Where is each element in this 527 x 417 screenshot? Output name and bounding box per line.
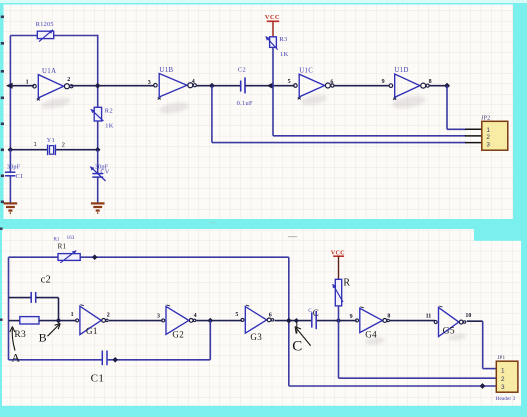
wire: net to JP2 pin 2 xyxy=(272,86,274,136)
svg-text:R3: R3 xyxy=(14,330,26,340)
svg-text:G1: G1 xyxy=(86,326,98,336)
resistor R1 (top, variable 205) xyxy=(36,21,54,42)
scan smudges xyxy=(40,93,466,346)
sheet border zone marks xyxy=(0,16,4,321)
wire: G5 output to JP1 pin 1 xyxy=(467,320,483,322)
node: top loop junction xyxy=(92,254,98,260)
svg-text:1K: 1K xyxy=(105,122,114,129)
capacitor C1 30pF xyxy=(5,150,24,203)
wire: G2 output to G3 input xyxy=(196,320,242,322)
svg-text:163: 163 xyxy=(67,236,75,241)
svg-text:9: 9 xyxy=(350,314,353,320)
svg-text:R1: R1 xyxy=(58,243,67,251)
svg-text:U1B: U1B xyxy=(159,67,173,74)
node: annotation-C junction xyxy=(294,318,299,323)
wire: net to JP2 pin 3 xyxy=(211,86,213,143)
wire: G4 output to G5 input xyxy=(390,320,435,322)
bottom schematic sheet xyxy=(2,229,521,406)
wire: G3 output to C xyxy=(275,320,312,322)
svg-text:1K: 1K xyxy=(280,51,289,58)
annotation arrow A xyxy=(10,326,21,364)
svg-text:C: C xyxy=(313,308,319,318)
node: JP1 pin3 junction xyxy=(480,383,486,389)
svg-text:4: 4 xyxy=(194,313,197,319)
svg-text:11: 11 xyxy=(426,314,432,320)
wire: R3 to node xyxy=(272,47,274,85)
svg-text:9: 9 xyxy=(382,79,385,85)
svg-text:2: 2 xyxy=(107,312,110,318)
power VCC (bottom) xyxy=(331,250,345,280)
svg-text:U1A: U1A xyxy=(42,68,56,75)
ground (right) xyxy=(91,203,105,213)
scan speck xyxy=(288,236,297,237)
capacitor c2 xyxy=(9,275,59,321)
wire: U1A input row xyxy=(10,85,34,87)
inverter U1D xyxy=(382,67,432,100)
resistor R3 (top, variable 1K) xyxy=(266,36,289,58)
svg-text:C1: C1 xyxy=(16,173,24,180)
capacitor C (bottom) xyxy=(308,308,319,329)
inverter U1B xyxy=(148,67,197,99)
svg-text:6: 6 xyxy=(269,312,272,318)
svg-text:8: 8 xyxy=(429,79,432,85)
svg-text:R1205: R1205 xyxy=(36,21,54,28)
svg-text:c2: c2 xyxy=(41,275,52,286)
wire: U1C output to U1D input xyxy=(333,85,389,87)
svg-text:2: 2 xyxy=(67,77,70,83)
svg-text:8: 8 xyxy=(387,313,390,319)
svg-text:G2: G2 xyxy=(172,329,184,339)
svg-text:0.1uF: 0.1uF xyxy=(237,100,253,107)
svg-text:6: 6 xyxy=(330,79,333,85)
svg-text:5: 5 xyxy=(235,312,238,318)
svg-text:3: 3 xyxy=(501,384,505,391)
svg-text:C2: C2 xyxy=(238,67,246,74)
wire: feedback top loop xyxy=(10,35,97,37)
node: C1 branch junction xyxy=(208,318,214,324)
wire: bottom sheet top loop xyxy=(9,256,289,258)
svg-text:1: 1 xyxy=(71,312,74,318)
wire: U1A output to node xyxy=(71,85,98,87)
svg-text:30pF: 30pF xyxy=(7,163,21,170)
inverter U1C xyxy=(288,67,334,99)
svg-text:R: R xyxy=(343,277,350,288)
node: R junction xyxy=(336,318,342,324)
resistor R (bottom, variable) xyxy=(333,277,351,306)
node: loop junction xyxy=(286,318,292,324)
svg-text:G5: G5 xyxy=(443,327,455,337)
svg-text:3: 3 xyxy=(486,141,490,148)
svg-text:B: B xyxy=(39,330,47,344)
annotation arrow B xyxy=(39,323,61,344)
wire: R to main row and JP1 pin 2 xyxy=(338,306,340,378)
inverter G3 xyxy=(235,305,273,342)
capacitor C2 0.1uF xyxy=(237,67,253,107)
svg-text:G4: G4 xyxy=(365,329,377,339)
inverter G2 xyxy=(157,305,197,340)
node: input-row junction arrow xyxy=(6,83,13,89)
power VCC (top) xyxy=(265,14,280,37)
wire: main row left xyxy=(9,320,20,322)
connector JP1 Header 3 xyxy=(496,355,518,402)
wire: U1B output to node xyxy=(196,85,240,87)
svg-text:3: 3 xyxy=(157,313,160,319)
svg-text:2: 2 xyxy=(62,142,65,148)
svg-text:CV: CV xyxy=(100,169,109,176)
svg-text:1: 1 xyxy=(501,367,505,374)
node: R3 junction xyxy=(267,83,273,89)
svg-text:JP2: JP2 xyxy=(481,115,490,121)
svg-text:U1D: U1D xyxy=(394,67,408,74)
crystal Y1 xyxy=(10,137,97,155)
resistor R3 (bottom) xyxy=(14,317,39,340)
svg-text:A: A xyxy=(11,351,20,365)
wire: node to U1B input xyxy=(98,85,155,87)
node: crystal left junction xyxy=(8,147,14,153)
svg-text:10: 10 xyxy=(465,313,471,319)
svg-text:Header 3: Header 3 xyxy=(496,396,516,402)
capacitor C1 (bottom) xyxy=(9,321,211,385)
node: U1A output junction xyxy=(95,83,101,89)
svg-text:2: 2 xyxy=(501,376,505,383)
connector JP2 xyxy=(481,115,508,150)
svg-text:1: 1 xyxy=(486,127,490,134)
resistor R2 (variable, 1K) xyxy=(91,107,114,129)
svg-text:Y1: Y1 xyxy=(47,137,55,144)
wire: C to G4 input xyxy=(317,320,357,322)
svg-text:VCC: VCC xyxy=(265,14,280,21)
svg-text:JP1: JP1 xyxy=(497,355,505,361)
resistor R1 (bottom, variable 163) xyxy=(54,236,81,263)
node: C1 right junction xyxy=(112,357,118,363)
inverter U1A xyxy=(26,68,73,101)
wire: node to U1C input xyxy=(273,85,295,87)
svg-text:C: C xyxy=(292,339,302,355)
node: U1B output junction xyxy=(209,83,215,89)
inverter G4 xyxy=(350,307,391,340)
wire: left bus xyxy=(9,36,11,150)
svg-text:C1: C1 xyxy=(91,373,105,385)
wire: net to JP2 pin 1 xyxy=(446,86,448,130)
svg-text:U1C: U1C xyxy=(299,67,313,74)
svg-text:3: 3 xyxy=(148,80,151,86)
top schematic sheet xyxy=(4,5,514,220)
inverter G5 xyxy=(426,306,472,337)
svg-text:R3: R3 xyxy=(279,36,287,43)
svg-text:1: 1 xyxy=(26,80,29,86)
ground (left) xyxy=(4,203,18,213)
wire: bottom sheet left bus xyxy=(8,257,10,360)
svg-text:2: 2 xyxy=(486,134,490,141)
annotation arrow C xyxy=(292,323,310,355)
node: crystal right junction xyxy=(95,147,101,153)
wire: U1D output to node xyxy=(428,85,447,87)
wire: R3 to G1 input xyxy=(39,320,76,322)
node: c2 junction xyxy=(56,318,62,324)
wire: right bus xyxy=(97,35,99,150)
wire: G1 output to G2 input xyxy=(109,320,163,322)
wire: right loop vertical to JP1 pin3 xyxy=(288,257,290,386)
svg-text:4: 4 xyxy=(192,79,195,85)
svg-text:5: 5 xyxy=(288,79,291,85)
inverter G1 xyxy=(71,305,110,336)
capacitor CV 30pF (variable) xyxy=(90,150,110,203)
svg-text:1: 1 xyxy=(34,142,37,148)
svg-text:R2: R2 xyxy=(105,108,113,115)
wire: C2 to node xyxy=(246,85,273,87)
svg-text:G3: G3 xyxy=(250,332,262,342)
cyan notch over bottom sheet top-right xyxy=(474,229,521,241)
node: U1D output junction xyxy=(444,83,450,89)
svg-text:C: C xyxy=(308,308,312,314)
